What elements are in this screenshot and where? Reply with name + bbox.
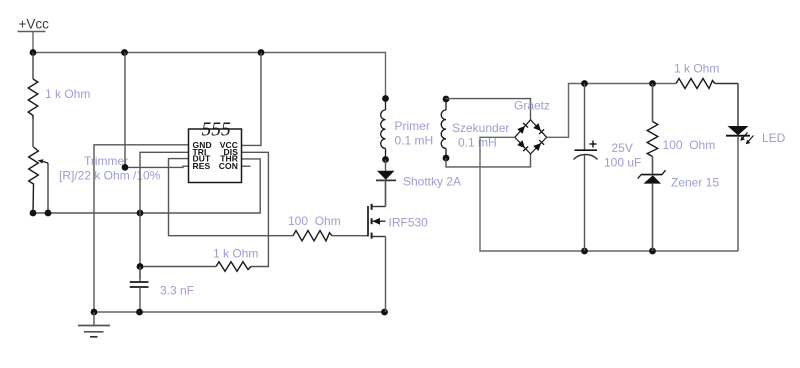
wire control rail y=213 xyxy=(33,159,260,213)
wire DIS pin down xyxy=(242,152,269,266)
wire GND pin to ground xyxy=(94,145,189,312)
diode D5 lower-right xyxy=(533,140,544,151)
svg-text:[R]/22 k Ohm /10%: [R]/22 k Ohm /10% xyxy=(59,169,161,183)
wire VCC pin to top rail xyxy=(242,53,262,146)
node dot RES corner (125,167.4) xyxy=(122,164,129,171)
svg-text:CON: CON xyxy=(219,161,238,171)
wire ground rail xyxy=(94,311,385,313)
node dot (384.5,312) xyxy=(381,309,388,316)
wire bridge minus to bottom rail xyxy=(480,137,738,251)
inductor L1 Primer 0.1 mH xyxy=(381,95,389,163)
node junction dot A (33,52.5) xyxy=(30,49,37,56)
wire secondary top to bridge xyxy=(446,99,531,120)
resistor R4 100 Ohm (gate) xyxy=(293,231,368,241)
capacitor C1 3.3 nF xyxy=(130,267,149,313)
svg-text:555: 555 xyxy=(202,120,232,141)
resistor R6 1 k Ohm (top right) xyxy=(676,79,738,89)
svg-text:100 Ohm: 100 Ohm xyxy=(288,214,341,228)
svg-text:Graetz: Graetz xyxy=(514,99,550,113)
node dot (652.5,251) xyxy=(649,248,656,255)
wire source down to ground rail xyxy=(385,237,387,313)
svg-text:Szekunder: Szekunder xyxy=(452,121,509,135)
node junction dot B (124.5,52.5) xyxy=(121,49,128,56)
svg-text:25V: 25V xyxy=(612,141,633,155)
svg-text:Trimmer: Trimmer xyxy=(84,154,128,168)
wire TRI pin branch xyxy=(140,152,189,279)
svg-text:+Vcc: +Vcc xyxy=(19,17,50,32)
inductor L2 Szekunder 0.1 mH xyxy=(441,96,449,162)
diode D3 upper-right xyxy=(533,123,544,134)
diode bridge Graetz xyxy=(515,120,547,154)
resistor R3 1 k Ohm (bottom horizontal) xyxy=(140,262,251,272)
svg-text:Shottky 2A: Shottky 2A xyxy=(403,175,461,189)
wire bridge plus to top rail xyxy=(547,84,676,138)
node +Vcc label xyxy=(18,17,50,32)
node dot (48,213) xyxy=(45,210,52,217)
node dot (652.5,83.5) xyxy=(649,80,656,87)
diode D6 Zener 15 xyxy=(638,157,666,252)
node dot (94,312) xyxy=(91,309,98,316)
ground symbol xyxy=(78,312,110,337)
svg-text:3.3 nF: 3.3 nF xyxy=(160,284,194,298)
op-amp U1 555 timer box xyxy=(189,120,242,183)
node dot (140,266.5) xyxy=(137,263,144,270)
trimmer potentiometer R2 xyxy=(29,147,48,213)
LED D7 xyxy=(726,84,754,252)
diode D2 upper-left xyxy=(517,123,528,134)
node dot (584.5,83.5) xyxy=(581,80,588,87)
wire OUT pin to gate resistor xyxy=(169,159,294,236)
resistor R1 1 k Ohm (left vertical) xyxy=(28,53,38,148)
svg-text:100 Ohm: 100 Ohm xyxy=(663,138,716,152)
svg-text:100 uF: 100 uF xyxy=(604,156,641,170)
node dot (33,213) xyxy=(30,210,37,217)
wire drain up to Shottky xyxy=(385,180,387,206)
diode D4 lower-left xyxy=(517,140,528,151)
svg-text:1 k Ohm: 1 k Ohm xyxy=(674,62,719,76)
node dot (139.5,312) xyxy=(136,309,143,316)
svg-text:Zener 15: Zener 15 xyxy=(671,176,719,190)
wire Vcc stem xyxy=(32,32,34,53)
svg-text:LED: LED xyxy=(762,131,786,145)
svg-text:Primer: Primer xyxy=(395,119,430,133)
node dot (584.5,251) xyxy=(581,248,588,255)
node junction dot C (261,52.5) xyxy=(258,49,265,56)
node dot (140,213) xyxy=(137,210,144,217)
svg-text:0.1 mH: 0.1 mH xyxy=(395,134,434,148)
capacitor C2 electrolytic 100uF xyxy=(574,84,598,252)
resistor R5 100 Ohm (right vertical) xyxy=(647,84,658,157)
svg-text:RES: RES xyxy=(193,161,211,171)
transistor Q1 IRF530 xyxy=(368,204,386,239)
svg-text:1 k Ohm: 1 k Ohm xyxy=(45,87,90,101)
diode D1 Shottky 2A xyxy=(376,160,396,207)
wire CON stub xyxy=(242,165,251,167)
wire secondary bottom to bridge xyxy=(446,154,531,167)
svg-text:1 k Ohm: 1 k Ohm xyxy=(213,247,258,261)
wire top rail xyxy=(33,53,386,99)
svg-text:IRF530: IRF530 xyxy=(389,216,429,230)
wire RES pin to Vcc branch xyxy=(125,53,189,168)
